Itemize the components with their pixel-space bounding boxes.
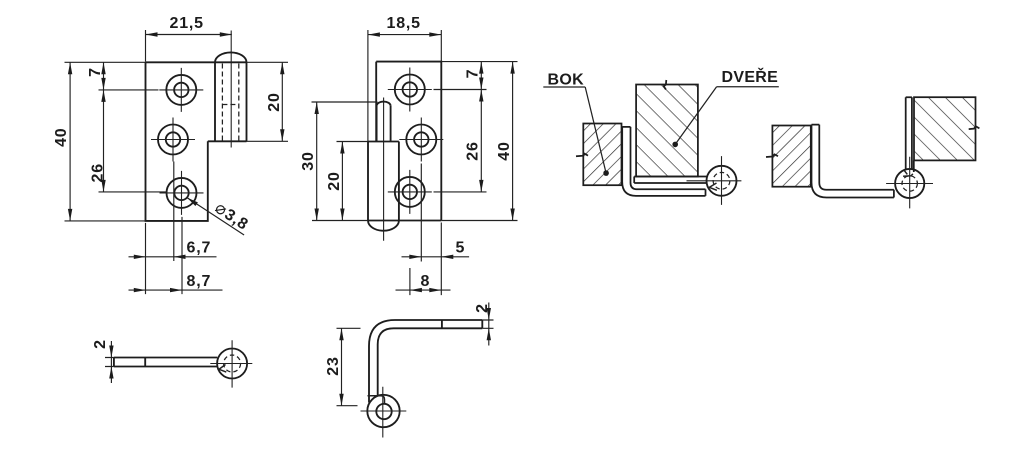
fig1 pin axis center line <box>230 31 232 148</box>
BOK block break mark <box>576 154 588 157</box>
fig1 barrel hidden pin hole (dashed) <box>222 64 238 142</box>
fig4 L-strip <box>369 320 482 403</box>
DVERE underline <box>717 86 779 88</box>
door block break mark <box>664 80 667 90</box>
fig1 dimension 7 and 26 <box>99 62 167 192</box>
svg-text:40: 40 <box>496 141 513 160</box>
fig2 pin axis center line <box>383 98 385 241</box>
svg-text:18,5: 18,5 <box>387 15 421 32</box>
fig1 leader diameter 3,8 <box>187 198 244 236</box>
BOK leader <box>585 87 606 173</box>
door block break mark (right edge) <box>969 126 980 129</box>
fig1 hole middle <box>151 118 195 162</box>
leaf2 L-profile (open section) <box>812 125 894 198</box>
fig1 dimension 20 (barrel length) <box>247 62 289 141</box>
svg-text:26: 26 <box>90 163 107 182</box>
fig4 pin circle <box>376 404 391 419</box>
svg-text:2: 2 <box>92 339 109 349</box>
svg-text:20: 20 <box>326 171 343 190</box>
open hidden pin circle <box>902 176 917 191</box>
fig2 hole top <box>388 68 432 112</box>
open barrel circle <box>895 169 924 198</box>
leaf1 strip (open, vertical) <box>906 97 914 172</box>
fig2 dimension 18,5 <box>368 30 441 142</box>
open barrel center lines <box>886 157 933 209</box>
door block (open) <box>914 97 976 160</box>
BOK block (side panel) <box>583 124 621 186</box>
svg-text:20: 20 <box>266 92 283 111</box>
DVERE leader <box>675 87 716 145</box>
fig2 dimension 5 <box>402 256 470 258</box>
fig2 hole middle <box>399 118 443 162</box>
section barrel center lines <box>687 156 742 205</box>
fig1 dimension 6,7 <box>129 256 217 258</box>
fig3 barrel circle <box>217 349 247 379</box>
svg-text:8,7: 8,7 <box>187 273 212 290</box>
side panel block (open) <box>772 126 810 187</box>
svg-text:7: 7 <box>465 69 482 79</box>
BOK leader dot <box>603 170 609 176</box>
fig3 hidden pin circle <box>224 355 241 372</box>
fig2 dimension 20 <box>337 142 369 221</box>
fig3 curl ticks <box>219 365 226 373</box>
svg-text:40: 40 <box>53 127 70 146</box>
svg-text:30: 30 <box>300 151 317 170</box>
fig2 pin <box>377 102 391 142</box>
svg-text:7: 7 <box>87 67 104 77</box>
fig2 dimension 8 <box>396 289 451 291</box>
fig2 dimension 30 <box>312 102 378 221</box>
section barrel circle <box>707 166 737 196</box>
svg-text:2: 2 <box>474 303 491 313</box>
svg-text:21,5: 21,5 <box>170 15 204 32</box>
fig2 plate outline <box>368 62 441 231</box>
fig4 dimension 2 <box>482 303 493 346</box>
svg-text:5: 5 <box>456 240 466 257</box>
fig2 hole bottom <box>388 170 432 214</box>
fig1 plate outline <box>146 52 247 221</box>
fig4 roll outer circle <box>367 395 399 427</box>
door block (closed) <box>636 85 698 177</box>
fig3 strip <box>114 358 217 367</box>
fig1 dimension 21,5 <box>145 30 232 62</box>
svg-text:26: 26 <box>465 141 482 160</box>
fig1 dimension 40 <box>65 62 146 221</box>
side panel break mark <box>766 154 778 157</box>
fig1 hole bottom <box>160 171 204 215</box>
fig2 dimension 7 and 26 (right side) <box>434 62 487 192</box>
svg-text:DVEŘE: DVEŘE <box>722 67 779 86</box>
section curl ticks <box>709 183 717 190</box>
svg-text:BOK: BOK <box>548 72 585 89</box>
section hidden pin circle <box>713 172 730 189</box>
fig3 barrel center lines <box>210 340 252 387</box>
open curl ticks <box>903 170 913 176</box>
leaf2 L-profile (section) <box>622 127 705 196</box>
leaf1 flat strip (section) <box>634 177 706 184</box>
BOK underline <box>543 86 585 88</box>
svg-text:23: 23 <box>325 356 342 375</box>
fig1 extension lines below plate <box>146 162 183 295</box>
svg-text:8: 8 <box>421 273 431 290</box>
fig2 dimension 40 (right side) <box>441 62 517 221</box>
DVERE leader dot <box>672 142 678 148</box>
fig3 dimension 2 <box>105 341 114 383</box>
fig2 extension lines below plate <box>410 164 441 296</box>
svg-text:6,7: 6,7 <box>187 240 212 257</box>
fig1 hole top <box>159 68 203 112</box>
fig4 dimension 23 <box>337 328 361 405</box>
fig4 roll tick <box>368 396 385 404</box>
fig1 dimension 8,7 <box>129 289 223 291</box>
fig4 roll center lines <box>361 387 407 438</box>
